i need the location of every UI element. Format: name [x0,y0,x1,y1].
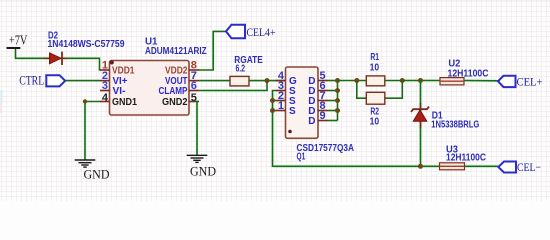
svg-text:6.2: 6.2 [236,63,246,74]
resistor R2 [366,92,385,104]
svg-text:CEL4+: CEL4+ [247,25,276,39]
U1 pin numbers right [191,60,197,104]
R2 branch wires [357,81,367,99]
wire U1 pin5 to GND [197,102,199,156]
junction S2 [270,98,275,103]
svg-text:GND1: GND1 [112,97,137,108]
svg-text:Q1: Q1 [297,151,306,162]
transistor Q1 body [286,67,319,138]
edge smudge artifacts [0,90,3,103]
wire RGATE to Q1 gate [249,80,286,82]
svg-text:S: S [289,106,296,117]
op-amp U1 body [110,61,190,116]
fuse U2 [440,78,464,85]
diode D2 [44,52,67,65]
resistor RGATE [230,76,249,86]
svg-text:VDD1: VDD1 [112,66,135,77]
U1 pin names [112,66,188,109]
wire U3 to CEL- [465,165,499,167]
wire S2 [273,100,276,102]
port CEL+ [498,75,543,89]
ground symbol right [187,155,208,162]
port CEL- [498,160,541,174]
wire halos [20,34,496,166]
wire U1 pin6 CLAMP to gate node [199,81,267,91]
svg-text:1N5338BRLG: 1N5338BRLG [431,119,479,130]
wire R2 node to fuse U2 [402,80,440,82]
junction gate node [265,78,270,83]
junction S1 [270,108,275,113]
svg-text:GND: GND [84,166,110,181]
svg-text:5: 5 [191,92,197,104]
svg-text:CEL+: CEL+ [517,75,543,89]
svg-text:GND2: GND2 [162,97,188,108]
Q1 left pin stubs [276,81,286,111]
svg-text:CLAMP: CLAMP [159,86,188,97]
zener diode D1 [411,103,429,128]
junction D1 top [418,78,423,83]
svg-text:VI-: VI- [113,86,126,97]
wire R1 right [385,80,403,82]
svg-text:1N4148WS-C57759: 1N4148WS-C57759 [48,39,125,50]
svg-text:3: 3 [102,80,108,92]
wire U1 pin7 to RGATE [199,80,230,82]
svg-text:ADUM4121ARIZ: ADUM4121ARIZ [145,46,207,57]
wire +7V to D2 to U1 pin1 [16,49,101,70]
svg-text:+7V: +7V [9,34,28,49]
svg-text:6: 6 [191,80,197,92]
port CEL4+ [226,25,276,40]
resistor R1 [366,76,385,86]
fuse U3 [440,163,465,170]
wire U1 pin8 to CEL4+ [199,31,226,70]
svg-text:CEL−: CEL− [517,160,541,174]
svg-text:9: 9 [320,110,326,122]
wire drain to R1 [338,80,367,82]
wire D1 vertical [420,81,422,167]
wire U2 to CEL+ [464,80,498,82]
svg-text:GND: GND [190,164,216,179]
drain bus wires [328,81,338,121]
power port +7V [7,34,28,50]
svg-text:CTRL: CTRL [19,73,44,87]
svg-text:10: 10 [370,117,380,128]
svg-text:4: 4 [102,92,109,104]
U1 right pin stubs [189,70,199,102]
U1 left pin stubs [100,70,110,102]
junction R right [400,78,405,83]
Q1 pin numbers left [278,70,285,112]
wire CTRL to U1 pin2 [65,80,100,82]
svg-text:10: 10 [370,62,380,73]
wire GND1 [85,102,101,160]
U1 pin numbers left [102,60,109,104]
junction at GND1 corner [83,99,87,103]
wire source bus to bottom [273,91,440,167]
junction D1 bottom [418,164,423,169]
junctions drain bus [335,78,340,83]
svg-text:12H1100C: 12H1100C [446,153,486,164]
svg-text:R1: R1 [370,52,379,63]
ground symbol left [75,160,96,167]
wire S1 [273,110,276,112]
Q1 pin numbers right [320,70,326,122]
svg-text:VDD2: VDD2 [165,66,188,77]
svg-text:1: 1 [278,100,284,112]
junction R left [354,78,359,83]
svg-text:D: D [308,116,315,127]
port CTRL [19,73,65,87]
Q1 right pin stubs [318,81,328,121]
Q1 pin names [289,76,316,127]
